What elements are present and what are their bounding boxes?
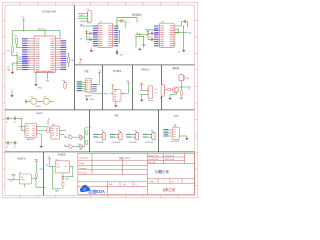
svg-text:S1: S1: [155, 89, 157, 91]
svg-text:Servo: Servo: [148, 99, 153, 102]
svg-text:P4: P4: [160, 97, 162, 99]
svg-text:HC-SR04: HC-SR04: [171, 141, 179, 143]
svg-text:D1: D1: [68, 135, 70, 137]
svg-text:R8: R8: [80, 140, 82, 142]
svg-text:C6: C6: [87, 42, 89, 44]
svg-text:立创EDA: 立创EDA: [88, 188, 105, 194]
svg-text:TCRT5000: TCRT5000: [96, 142, 104, 144]
svg-text:1: 1: [163, 181, 164, 183]
svg-text:C4: C4: [13, 147, 15, 149]
svg-text:Drawed:: Drawed:: [79, 168, 87, 170]
svg-text:2022-11-18: 2022-11-18: [165, 159, 174, 161]
svg-text:C9: C9: [10, 181, 12, 183]
svg-text:Schematic:: Schematic:: [79, 157, 89, 160]
svg-text:GND1: GND1: [93, 137, 98, 139]
svg-text:B+: B+: [65, 166, 67, 168]
svg-text:Create Date:: Create Date:: [148, 158, 159, 161]
svg-text:4056: 4056: [56, 166, 60, 168]
svg-text:C3: C3: [6, 147, 8, 149]
svg-text:下载: 下载: [84, 69, 89, 73]
svg-text:RXD: RXD: [104, 93, 109, 95]
svg-text:Revision:: Revision:: [79, 172, 88, 174]
svg-text:GND: GND: [142, 44, 147, 46]
svg-text:Update Date:: Update Date:: [148, 154, 159, 157]
svg-text:U9: U9: [56, 159, 58, 161]
svg-text:VM: VM: [80, 25, 83, 27]
svg-text:C5: C5: [87, 36, 89, 38]
svg-text:Page:: Page:: [79, 163, 85, 165]
svg-text:GND: GND: [38, 87, 43, 89]
svg-text:创新之家: 创新之家: [163, 187, 177, 192]
svg-text:2022-10-09: 2022-10-09: [165, 155, 174, 157]
svg-text:Ref. Tag:: Ref. Tag:: [148, 162, 156, 164]
svg-text:问题小车: 问题小车: [155, 169, 170, 174]
svg-text:12MHz: 12MHz: [35, 106, 41, 108]
svg-text:P3: P3: [155, 93, 157, 95]
svg-text:Page: Page: [150, 181, 154, 183]
svg-text:OUT1: OUT1: [93, 134, 98, 136]
svg-text:AMS1117: AMS1117: [27, 138, 35, 141]
svg-text:1: 1: [178, 181, 179, 183]
svg-text:S2: S2: [19, 173, 21, 175]
svg-text:SW: SW: [7, 70, 10, 72]
svg-text:XH-4: XH-4: [87, 23, 91, 25]
svg-text:CH340N: CH340N: [84, 95, 92, 97]
svg-text:GPIO14: GPIO14: [38, 29, 46, 31]
svg-text:R9: R9: [102, 130, 104, 132]
svg-text:电机驱动: 电机驱动: [132, 13, 142, 17]
svg-text:U8: U8: [52, 124, 54, 126]
svg-text:C1: C1: [6, 122, 8, 124]
svg-text:C8: C8: [149, 36, 151, 38]
svg-text:C2: C2: [13, 122, 15, 124]
svg-text:VM: VM: [120, 54, 123, 56]
svg-text:V1: V1: [135, 184, 137, 186]
svg-text:D2: D2: [78, 135, 80, 137]
